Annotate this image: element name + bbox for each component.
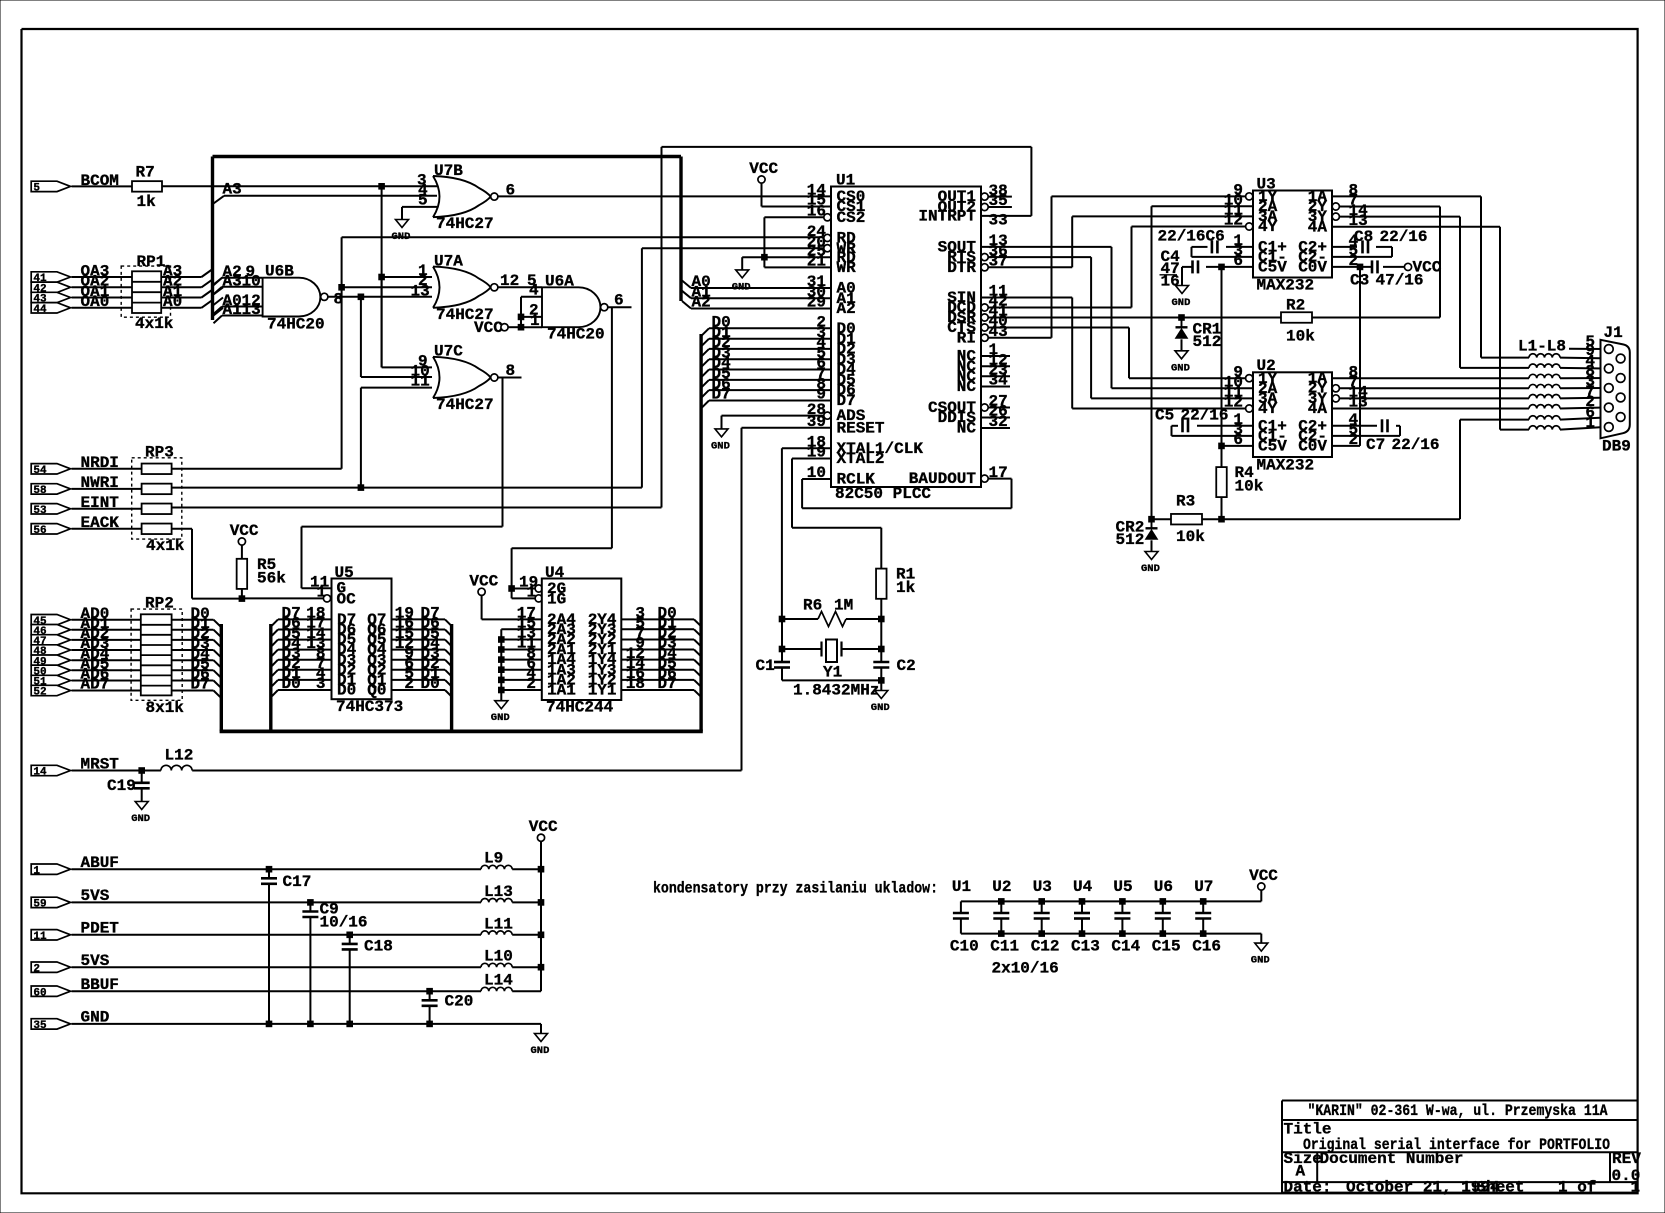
wire xtal bottom rail bbox=[782, 679, 881, 681]
wire ABUF row bbox=[72, 868, 482, 870]
wire SOUT net bbox=[981, 246, 1112, 248]
bus D thick bottom horizontal bbox=[220, 730, 703, 734]
wire U6B out down to U7C pin10 bbox=[360, 297, 362, 377]
bus entry A0 right bbox=[682, 281, 691, 289]
bubble U7C output bbox=[491, 374, 498, 381]
wire C6 loop bbox=[1226, 246, 1253, 248]
svg-text:C1: C1 bbox=[756, 657, 775, 675]
svg-text:L12: L12 bbox=[165, 747, 194, 765]
wire INTRPT right vertical bbox=[1030, 147, 1032, 216]
ground power section bbox=[535, 1034, 548, 1042]
wire C5V row U3 bbox=[1206, 266, 1253, 268]
bubbles U1 right pins bbox=[981, 193, 988, 200]
svg-text:52: 52 bbox=[33, 687, 46, 699]
svg-text:D0: D0 bbox=[282, 675, 301, 693]
svg-text:C5V: C5V bbox=[1258, 438, 1287, 456]
capacitor C19 bbox=[141, 771, 143, 783]
bubble U7B output bbox=[491, 193, 498, 200]
capacitor C6 bbox=[1211, 240, 1214, 253]
wire C4 left to GND bbox=[1182, 266, 1193, 268]
wires U5 right Q outputs with bus entries bbox=[392, 618, 446, 620]
wire INTRPT stub bbox=[981, 215, 1031, 217]
wire R3 net to coil7 bbox=[1459, 420, 1461, 520]
svg-text:U6: U6 bbox=[1154, 878, 1173, 896]
connector flag 1 (ABUF) bbox=[31, 864, 70, 874]
wire U7C pin9 bbox=[382, 366, 432, 368]
wire RTS net bbox=[988, 256, 1091, 258]
bus entry rp1-a0 bbox=[202, 300, 213, 308]
svg-text:C19: C19 bbox=[107, 777, 136, 795]
wire C5 loop bbox=[1197, 425, 1253, 427]
junction vcc rail 5vs bbox=[538, 900, 544, 906]
resistor RP1 divider1 bbox=[132, 281, 161, 283]
wire U4 enable net junction bbox=[509, 586, 515, 592]
svg-text:D0: D0 bbox=[421, 675, 440, 693]
svg-text:74HC373: 74HC373 bbox=[336, 698, 403, 716]
vcc U1 CS1 bbox=[758, 176, 765, 183]
svg-text:16: 16 bbox=[1161, 273, 1180, 291]
wire 56 to RP3 bbox=[72, 528, 142, 530]
svg-text:4Y: 4Y bbox=[1258, 400, 1278, 418]
inductor L12 bbox=[161, 765, 192, 770]
svg-text:U5: U5 bbox=[1113, 878, 1132, 896]
wire OC row to U5 bbox=[242, 597, 323, 599]
wire U2 3Y to coil5 bbox=[1339, 397, 1529, 399]
svg-text:"KARIN" 02-361 W-wa, ul. Przem: "KARIN" 02-361 W-wa, ul. Przemyska 11A bbox=[1308, 1102, 1608, 1120]
ground CR1 bbox=[1175, 351, 1188, 359]
wire U7B.6 to U1 CS0 bbox=[498, 195, 831, 197]
wire U2 2Y to coil4 bbox=[1339, 387, 1529, 389]
wire A1 to U1 bbox=[691, 297, 831, 299]
capacitor C17 bbox=[268, 869, 270, 878]
svg-text:1: 1 bbox=[33, 865, 40, 877]
svg-text:DB9: DB9 bbox=[1602, 438, 1631, 456]
svg-text:44: 44 bbox=[33, 304, 47, 316]
svg-text:74HC20: 74HC20 bbox=[547, 326, 605, 344]
svg-text:VCC: VCC bbox=[230, 522, 259, 540]
svg-text:CS2: CS2 bbox=[837, 209, 866, 227]
wire A3 from bus to U7B pin4 bbox=[214, 196, 225, 204]
svg-text:D7: D7 bbox=[712, 386, 731, 404]
or-gate U7A 74HC27 bbox=[433, 267, 491, 308]
svg-text:2x10/16: 2x10/16 bbox=[992, 960, 1059, 978]
connector flags 45-52 (AD0-AD7) bbox=[31, 615, 70, 625]
svg-text:kondensatory przy zasilaniu uk: kondensatory przy zasilaniu ukladow: bbox=[653, 880, 938, 898]
svg-text:5: 5 bbox=[33, 183, 40, 195]
resistor R2 bbox=[1281, 312, 1312, 323]
resistor RP3-3 (EINT) bbox=[142, 504, 172, 515]
wire NWRI row bbox=[171, 487, 642, 489]
svg-text:GND: GND bbox=[711, 440, 730, 452]
junction C18 bottom bbox=[347, 1021, 353, 1027]
bubble U4 1G bbox=[535, 595, 542, 602]
wire DCD net bbox=[988, 307, 1131, 309]
wire XTAL2 net bbox=[792, 458, 831, 460]
wire BBUF row bbox=[72, 990, 482, 992]
svg-text:C0V: C0V bbox=[1298, 438, 1327, 456]
svg-text:10k: 10k bbox=[1176, 528, 1205, 546]
svg-text:L13: L13 bbox=[484, 883, 513, 901]
wires U5 left D inputs with bus entries bbox=[278, 618, 332, 620]
wire DB9 pin5 stub bbox=[1569, 348, 1605, 350]
wire R3 row to coil7 bbox=[1222, 518, 1461, 520]
junction C5V node U3 bbox=[1219, 264, 1225, 270]
ic U5 74HC373 box bbox=[332, 579, 392, 700]
svg-text:VCC: VCC bbox=[474, 319, 503, 337]
svg-text:U1: U1 bbox=[836, 172, 855, 190]
svg-text:RCLK: RCLK bbox=[837, 471, 876, 489]
svg-text:59: 59 bbox=[33, 899, 46, 911]
ic U4 74HC244 box bbox=[542, 579, 622, 701]
wire C8 loop bbox=[1332, 246, 1357, 248]
svg-text:C17: C17 bbox=[283, 873, 312, 891]
crystal Y1 bbox=[820, 642, 822, 657]
svg-text:47/16: 47/16 bbox=[1376, 272, 1424, 290]
wire VCC to CS1 bbox=[761, 183, 763, 206]
junction Y1 left bbox=[779, 646, 785, 652]
wire Y1 row right bbox=[842, 648, 882, 650]
wire CR1 to GND bbox=[1181, 339, 1183, 351]
wire EINT row bbox=[171, 507, 661, 509]
wires U4 left grounded inputs bbox=[501, 628, 542, 630]
wires U1 NC stubs bbox=[981, 355, 1010, 357]
svg-text:33: 33 bbox=[989, 212, 1008, 230]
title block line3 bbox=[1282, 1151, 1638, 1153]
svg-text:74HC244: 74HC244 bbox=[546, 699, 614, 717]
svg-text:74HC20: 74HC20 bbox=[267, 316, 325, 334]
wire gnd drop bbox=[540, 1024, 542, 1034]
vcc U4 bbox=[478, 588, 485, 595]
title block sheet divider bbox=[1474, 1182, 1476, 1193]
wire U2 4A to coil6 bbox=[1332, 408, 1529, 410]
or-gate U7C 74HC27 bbox=[433, 357, 491, 398]
wires coils to DB9 bbox=[1560, 357, 1616, 360]
wire EACK jog bbox=[172, 528, 192, 530]
wire ADS to GND bbox=[722, 415, 824, 417]
wire A2 to U1 bbox=[691, 308, 831, 310]
svg-text:512: 512 bbox=[1193, 333, 1222, 351]
ic U1 82C50 box bbox=[831, 187, 981, 488]
wire U7C.11 down to NWRI bbox=[360, 388, 362, 488]
svg-text:4Y: 4Y bbox=[1258, 218, 1278, 236]
bus A thick right vertical bbox=[679, 157, 682, 302]
svg-text:5: 5 bbox=[418, 192, 428, 210]
resistor RP2 dividers bbox=[141, 624, 172, 626]
svg-text:WR: WR bbox=[837, 259, 857, 277]
svg-text:J1: J1 bbox=[1604, 324, 1623, 342]
resistor R5 bbox=[237, 559, 248, 589]
resistor pack RP1 dashed box bbox=[121, 266, 170, 317]
wire U6B pin10 bbox=[222, 286, 263, 288]
wire RD25 to GND bbox=[742, 256, 831, 258]
svg-text:NC: NC bbox=[957, 378, 977, 396]
svg-text:GND: GND bbox=[1172, 297, 1191, 309]
svg-text:1: 1 bbox=[317, 584, 327, 602]
wire U6A pin1 stub bbox=[521, 326, 542, 328]
svg-text:C8: C8 bbox=[1354, 228, 1373, 246]
wire U5 G from U7C net bbox=[302, 587, 332, 589]
junction dots U4 ground bus bbox=[499, 637, 505, 643]
wire R1 to R6 node bbox=[880, 599, 882, 619]
svg-text:1k: 1k bbox=[896, 579, 916, 597]
svg-text:BCOM: BCOM bbox=[81, 172, 119, 190]
svg-text:18: 18 bbox=[626, 675, 645, 693]
wire DTR net bbox=[988, 266, 1072, 268]
svg-text:C13: C13 bbox=[1071, 938, 1100, 956]
svg-text:R3: R3 bbox=[1176, 493, 1195, 511]
resistor RP3-4 (EACK) bbox=[142, 524, 172, 535]
nand-gate U6A 74HC20 bbox=[542, 287, 600, 327]
svg-text:Y1: Y1 bbox=[823, 664, 842, 682]
vcc bubble C3 bbox=[1404, 263, 1411, 270]
wire R3 leads bbox=[1152, 518, 1172, 520]
svg-text:58: 58 bbox=[33, 485, 47, 497]
wire vcc to rail bbox=[1260, 890, 1262, 901]
svg-text:MAX232: MAX232 bbox=[1257, 457, 1315, 475]
junction RD net at U7A pin2 bbox=[339, 285, 345, 291]
svg-text:10k: 10k bbox=[1286, 328, 1315, 346]
connector flag 53 (EINT) bbox=[31, 504, 70, 514]
svg-text:10: 10 bbox=[242, 272, 261, 290]
connector flag 59 (5VS) bbox=[31, 897, 70, 907]
svg-text:RP1: RP1 bbox=[137, 253, 166, 271]
svg-text:OC: OC bbox=[337, 591, 357, 609]
svg-text:56k: 56k bbox=[257, 570, 286, 588]
bus U5 right thick bbox=[450, 624, 453, 731]
wire C3 to VCC bbox=[1383, 266, 1404, 268]
inductor L13 bbox=[481, 899, 512, 903]
wire L14 to VCC rail bbox=[512, 990, 541, 992]
svg-text:35: 35 bbox=[33, 1020, 47, 1032]
wire MRST to L12 bbox=[72, 770, 161, 772]
ground crystal bbox=[875, 691, 888, 699]
wire U2 1A to coil3 bbox=[1332, 377, 1529, 379]
junction Y1 right bbox=[879, 646, 885, 652]
svg-text:C5V: C5V bbox=[1258, 259, 1287, 277]
svg-text:C10: C10 bbox=[950, 938, 979, 956]
connector flag 54 (NRDI) bbox=[31, 464, 70, 474]
wire U6B pin12 bbox=[222, 306, 263, 308]
wire RP1 out A1 bbox=[161, 297, 201, 299]
capacitor C5 bbox=[1181, 419, 1184, 432]
junctions cap bank rails bbox=[999, 899, 1005, 905]
bus U5 left thick bbox=[269, 624, 272, 731]
svg-text:Sheet: Sheet bbox=[1477, 1179, 1525, 1197]
svg-text:C7: C7 bbox=[1366, 436, 1385, 454]
capacitor C3 bbox=[1371, 260, 1374, 273]
svg-text:RI: RI bbox=[957, 329, 976, 347]
vcc R5 bbox=[238, 538, 245, 545]
wire U7C pin10 bbox=[361, 376, 432, 378]
wire rail to gnd bbox=[1260, 934, 1262, 944]
junction CR1 node bbox=[1179, 315, 1185, 321]
title block bottom bbox=[1282, 1192, 1638, 1194]
resistor R1 bbox=[876, 569, 887, 599]
junction U6A tie pin2 bbox=[518, 314, 524, 320]
bus exit to U6B pin10 bbox=[214, 287, 223, 294]
or-gate U7B 74HC27 bbox=[433, 176, 491, 217]
wire U3 2A net vertical bbox=[1151, 206, 1153, 519]
svg-text:MAX232: MAX232 bbox=[1257, 277, 1315, 295]
svg-text:GND: GND bbox=[131, 813, 150, 825]
svg-text:C11: C11 bbox=[990, 938, 1019, 956]
wires U1 CSOUT DDIS NC stubs bbox=[988, 407, 1010, 409]
bus entry A2 left bbox=[214, 287, 224, 294]
wire 5VS row bbox=[72, 901, 482, 903]
resistor R7 bbox=[132, 181, 162, 192]
svg-text:1 of: 1 of bbox=[1558, 1179, 1596, 1197]
wire U6B pin9 bbox=[222, 277, 263, 279]
svg-text:C0V: C0V bbox=[1298, 259, 1327, 277]
junction C3 node bbox=[1357, 264, 1363, 270]
wire U7C out down bbox=[502, 378, 504, 527]
wire Y1 row left bbox=[782, 648, 822, 650]
ground U7B pin5 bbox=[396, 220, 409, 228]
wire U7B pin5 to GND bbox=[402, 206, 437, 208]
vcc bubble U6A ties bbox=[501, 324, 508, 331]
svg-text:A3: A3 bbox=[223, 181, 242, 199]
svg-text:C16: C16 bbox=[1192, 938, 1221, 956]
wires flags to RP2 bbox=[72, 619, 141, 621]
wire U7A pin1 bbox=[382, 276, 432, 278]
svg-text:22/16: 22/16 bbox=[1158, 228, 1206, 246]
wire SIN net bbox=[981, 297, 1072, 299]
svg-text:8x1k: 8x1k bbox=[146, 699, 185, 717]
wire U4 2G stub bbox=[512, 588, 536, 590]
wire PDET row bbox=[72, 934, 482, 936]
svg-text:A2: A2 bbox=[692, 294, 711, 312]
wire OUT2 stub bbox=[988, 206, 1012, 208]
diode CR1 bbox=[1181, 318, 1183, 328]
wire RP1 out A0 bbox=[161, 307, 201, 309]
svg-text:1.8432MHz: 1.8432MHz bbox=[793, 682, 879, 700]
capacitor C2 bbox=[873, 661, 889, 664]
svg-text:3: 3 bbox=[316, 675, 326, 693]
title block line2 bbox=[1282, 1119, 1638, 1121]
svg-text:Date:: Date: bbox=[1284, 1179, 1332, 1197]
title block rev divider bbox=[1609, 1152, 1611, 1182]
wire 5VS row bbox=[72, 966, 482, 968]
ground C4 bbox=[1176, 286, 1189, 294]
bubbles U1 left pins bbox=[824, 214, 831, 221]
wire GND row bbox=[72, 1023, 542, 1025]
svg-text:U6A: U6A bbox=[545, 273, 574, 291]
svg-text:C6: C6 bbox=[1206, 228, 1225, 246]
resistor RP3-2 (NWRI) bbox=[142, 484, 172, 495]
junction C9 top bbox=[308, 900, 314, 906]
resistor RP1 divider2 bbox=[132, 291, 161, 293]
svg-text:C20: C20 bbox=[445, 993, 474, 1011]
wire U7C net left bbox=[302, 526, 503, 528]
capacitor C20 bbox=[429, 991, 431, 1000]
wire U7C pin11 bbox=[361, 387, 432, 389]
svg-text:1A1: 1A1 bbox=[547, 682, 576, 700]
svg-text:L11: L11 bbox=[484, 915, 513, 933]
svg-text:1: 1 bbox=[1585, 414, 1595, 432]
svg-text:RP2: RP2 bbox=[145, 595, 174, 613]
svg-text:VCC: VCC bbox=[529, 818, 558, 836]
bus exit to U6B pin13 bbox=[214, 316, 223, 324]
bus A thick horizontal bbox=[213, 155, 682, 158]
wire BCOM net down to U7A.1 and U7C.9 bbox=[381, 186, 383, 367]
wire VCC to R5 bbox=[241, 545, 243, 559]
junction C17 top bbox=[266, 866, 272, 872]
bubble U4 2G bbox=[535, 585, 542, 592]
bus exit to U6B pin12 bbox=[214, 307, 223, 315]
svg-text:54: 54 bbox=[33, 465, 47, 477]
junction C20 bottom bbox=[427, 1021, 433, 1027]
junction C18 top bbox=[347, 932, 353, 938]
resistor RP2 body bbox=[141, 614, 172, 695]
wire U6A out down to U4 enables bbox=[611, 307, 613, 548]
ground C19 bbox=[135, 802, 148, 810]
wire MRST to RESET bbox=[192, 770, 741, 772]
svg-text:U3: U3 bbox=[1033, 878, 1052, 896]
bus entry rp1-a3 bbox=[202, 270, 213, 278]
svg-text:U7A: U7A bbox=[434, 253, 463, 271]
ground ADS bbox=[715, 429, 728, 437]
capacitor C1 bbox=[774, 661, 790, 664]
wire C7 loop bbox=[1332, 425, 1377, 427]
bus entry A0 left bbox=[214, 308, 224, 316]
connector flag 44 (OA0) bbox=[31, 303, 70, 313]
wire xtal left vertical bbox=[781, 619, 783, 662]
diode CR2 bbox=[1151, 519, 1153, 529]
svg-text:VCC: VCC bbox=[1249, 867, 1278, 885]
bubble U7A output bbox=[491, 284, 498, 291]
wire RD net vertical bbox=[341, 237, 343, 468]
resistor RP1 divider3 bbox=[132, 302, 161, 304]
capacitor C7 bbox=[1381, 419, 1384, 432]
svg-text:10/16: 10/16 bbox=[320, 914, 368, 932]
wire C1 down bbox=[781, 668, 783, 681]
svg-text:Document Number: Document Number bbox=[1320, 1150, 1464, 1168]
wire U3 4A to coil8 bbox=[1332, 226, 1500, 228]
svg-text:10k: 10k bbox=[1235, 478, 1264, 496]
svg-text:D7: D7 bbox=[191, 676, 210, 694]
pins J1 DB9 circles bbox=[1604, 345, 1613, 354]
bubble U5 OC bbox=[323, 595, 330, 602]
svg-text:C18: C18 bbox=[364, 938, 393, 956]
wire WR20 row to U1 bbox=[642, 247, 824, 249]
connector flag 42 (OA2) bbox=[31, 282, 70, 292]
svg-text:A2: A2 bbox=[837, 300, 856, 318]
svg-text:1: 1 bbox=[527, 584, 537, 602]
ground U4 inputs bbox=[495, 701, 508, 709]
wire C3 node down to U2 C0V bbox=[1359, 267, 1361, 446]
wire U4 enable to 1G bbox=[511, 589, 513, 599]
wire 42 to RP1 bbox=[72, 286, 133, 288]
svg-text:2: 2 bbox=[33, 963, 40, 975]
svg-text:60: 60 bbox=[33, 987, 46, 999]
wire CS2 tie bbox=[764, 216, 824, 218]
bus entry A3 left bbox=[214, 277, 224, 285]
svg-text:74HC27: 74HC27 bbox=[436, 396, 494, 414]
wire U3 3Y to coil2 bbox=[1339, 216, 1460, 218]
svg-text:22/16: 22/16 bbox=[1392, 436, 1440, 454]
inductor L10 bbox=[481, 963, 512, 967]
svg-text:11: 11 bbox=[33, 931, 47, 943]
svg-text:C2: C2 bbox=[897, 657, 916, 675]
svg-text:4x1k: 4x1k bbox=[146, 537, 185, 555]
capacitor C4 bbox=[1191, 260, 1194, 273]
title block outer bbox=[1282, 1100, 1638, 1102]
bus entry rp1-a2 bbox=[202, 280, 213, 288]
svg-text:GND: GND bbox=[491, 712, 510, 724]
junction R6 left bbox=[779, 616, 785, 622]
connector J1 DB9 body bbox=[1601, 340, 1630, 439]
svg-text:11: 11 bbox=[411, 373, 430, 391]
